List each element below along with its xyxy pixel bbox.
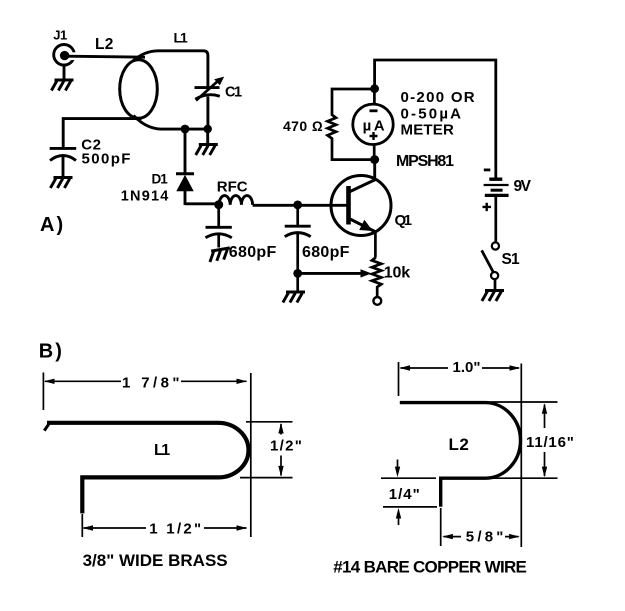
strip L1 shape — [44, 422, 248, 514]
wire RFC to base — [253, 204, 347, 207]
svg-text:0-50µA: 0-50µA — [401, 106, 464, 123]
svg-text:1 1/2": 1 1/2" — [149, 521, 203, 538]
ground at 680pF first — [208, 234, 232, 262]
ground at C2 — [50, 157, 72, 188]
svg-text:1.0": 1.0" — [453, 359, 481, 376]
capacitor 680pF second — [285, 205, 311, 273]
svg-text:J1: J1 — [53, 27, 67, 42]
svg-text:B): B) — [39, 341, 64, 363]
dimension 1.0 extension left — [398, 362, 400, 396]
wire C2 branch — [63, 119, 141, 148]
svg-text:C1: C1 — [225, 85, 242, 101]
resistor 10k — [372, 258, 381, 305]
node junction collector — [370, 155, 379, 164]
capacitor 680pF first — [206, 205, 232, 238]
svg-text:500pF: 500pF — [82, 151, 132, 168]
label meter range — [401, 89, 476, 138]
dimension 1 7/8 extension left — [42, 373, 44, 411]
wire L2 shape — [400, 403, 521, 507]
dimension line 1 1/2 — [82, 525, 247, 530]
battery B1 9V — [484, 179, 509, 195]
wire J1 to coil — [66, 56, 145, 57]
svg-text:#14 BARE COPPER WIRE: #14 BARE COPPER WIRE — [333, 558, 526, 577]
dimension line 1/2 — [278, 423, 283, 477]
ground at C1 junction — [196, 131, 218, 155]
wire D1 to RFC node — [185, 202, 219, 205]
svg-text:S1: S1 — [502, 251, 521, 268]
coil L2/L1 coupling loop — [120, 60, 158, 118]
dimension line 1 7/8 — [44, 379, 247, 384]
dimension line 1/4 — [395, 460, 401, 526]
svg-text:1 7/8": 1 7/8" — [122, 375, 183, 392]
svg-text:0-200 OR: 0-200 OR — [401, 89, 476, 106]
label battery plus — [483, 203, 492, 211]
svg-text:11/16": 11/16" — [526, 434, 575, 451]
wire coil bottom to junctions — [134, 116, 208, 130]
dimension 1 7/8 extension right — [250, 373, 252, 537]
svg-text:1N914: 1N914 — [121, 189, 170, 205]
node junction wiper — [293, 269, 302, 278]
dimension line 1.0 — [399, 365, 520, 370]
label battery minus — [484, 168, 491, 171]
wire top rail — [375, 60, 496, 179]
svg-text:1/2": 1/2" — [270, 438, 303, 455]
wire L1 top loop to C1 — [133, 51, 208, 87]
ground below wiper junction — [283, 275, 305, 303]
dimension 1/2 extensions — [240, 422, 293, 478]
capacitor C1 (variable) — [195, 77, 225, 101]
inductor RFC — [219, 196, 253, 205]
svg-text:3/8" WIDE BRASS: 3/8" WIDE BRASS — [83, 551, 228, 570]
svg-text:1/4": 1/4" — [389, 486, 421, 503]
node junction right (C1 ground) — [204, 125, 212, 133]
node junction left (D1 tap) — [181, 125, 190, 134]
wire emitter down — [374, 233, 377, 258]
dimension 1.0 extension right — [520, 364, 522, 548]
ground at J1 — [51, 65, 73, 91]
wire battery to switch — [494, 197, 497, 243]
svg-text:L1: L1 — [154, 442, 170, 459]
svg-text:L2: L2 — [449, 435, 470, 454]
ground at switch — [482, 279, 504, 301]
svg-text:5/8": 5/8" — [466, 529, 507, 546]
dimension line 5/8 — [442, 534, 520, 539]
node junction RFC left — [214, 200, 223, 209]
svg-text:D1: D1 — [152, 171, 169, 186]
wire wiper arrow to 10k — [298, 269, 372, 277]
connector J1 — [54, 45, 78, 66]
wire C1 to junction — [206, 97, 209, 130]
wire collector up — [373, 160, 376, 178]
dimension 1 1/2 extension left — [81, 514, 83, 537]
transistor Q1 — [331, 176, 391, 236]
svg-text:A): A) — [40, 214, 65, 236]
svg-text:RFC: RFC — [217, 179, 248, 196]
dimension 11/16 extensions — [487, 402, 558, 478]
node junction base — [293, 201, 302, 210]
svg-text:METER: METER — [401, 121, 455, 138]
svg-text:470 Ω: 470 Ω — [283, 118, 323, 134]
svg-text:L2: L2 — [95, 36, 114, 53]
svg-text:680pF: 680pF — [302, 244, 350, 261]
svg-text:L1: L1 — [174, 30, 189, 46]
dimension line 11/16 — [542, 403, 547, 477]
capacitor C2 — [50, 148, 76, 160]
diode D1 — [176, 129, 194, 205]
svg-text:MPSH81: MPSH81 — [396, 153, 454, 170]
svg-text:680pF: 680pF — [229, 244, 277, 261]
svg-text:10k: 10k — [384, 265, 410, 282]
meter M1 — [353, 89, 393, 160]
svg-text:Q1: Q1 — [395, 212, 412, 229]
svg-text:9V: 9V — [514, 178, 532, 195]
dimension 1/4 extensions — [381, 478, 437, 507]
svg-text:µA: µA — [363, 118, 387, 135]
node junction meter top — [370, 84, 379, 93]
resistor 470ohm with corner wires — [328, 89, 375, 160]
dimension 5/8 extension left — [440, 508, 442, 546]
switch S1 — [482, 242, 499, 279]
